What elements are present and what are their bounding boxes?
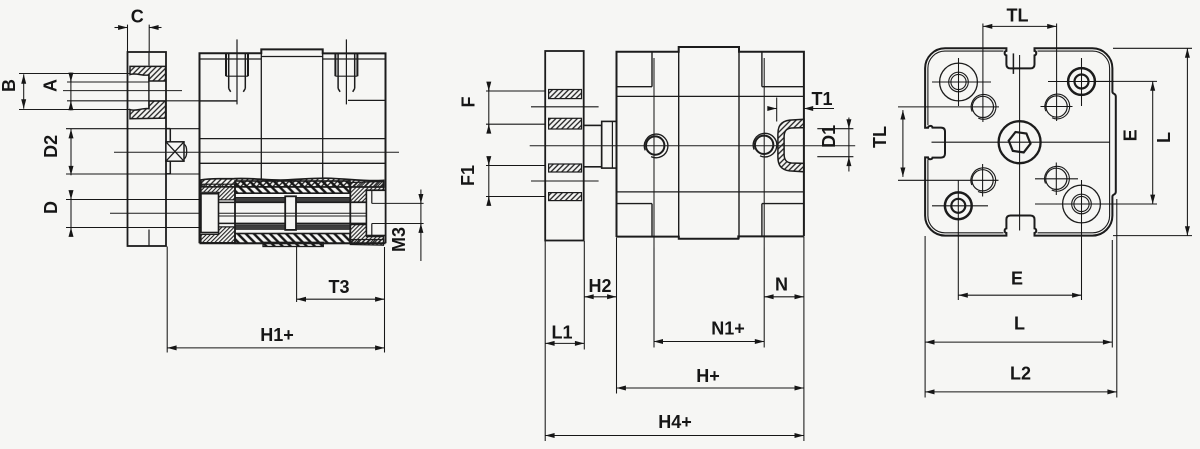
svg-text:D: D (41, 201, 61, 214)
svg-text:H1+: H1+ (260, 325, 294, 345)
svg-text:L: L (1014, 314, 1025, 334)
svg-text:N: N (775, 274, 788, 294)
svg-text:H4+: H4+ (658, 412, 692, 432)
svg-text:T1: T1 (811, 89, 832, 109)
svg-text:D1: D1 (819, 125, 839, 148)
svg-text:TL: TL (1007, 6, 1029, 26)
svg-text:A: A (41, 79, 61, 92)
svg-text:H+: H+ (696, 366, 720, 386)
svg-text:D2: D2 (41, 135, 61, 158)
svg-text:N1+: N1+ (711, 319, 745, 339)
svg-text:H2: H2 (588, 276, 611, 296)
svg-text:L1: L1 (551, 322, 572, 342)
svg-text:L: L (1154, 132, 1174, 143)
svg-text:B: B (0, 79, 19, 92)
svg-text:E: E (1121, 129, 1141, 141)
svg-text:C: C (131, 7, 144, 27)
svg-text:TL: TL (870, 126, 890, 148)
svg-text:E: E (1011, 268, 1023, 288)
svg-text:L2: L2 (1010, 363, 1031, 383)
svg-text:M3: M3 (389, 227, 409, 252)
svg-text:F: F (459, 97, 479, 108)
svg-text:F1: F1 (458, 165, 478, 186)
svg-text:T3: T3 (328, 277, 349, 297)
